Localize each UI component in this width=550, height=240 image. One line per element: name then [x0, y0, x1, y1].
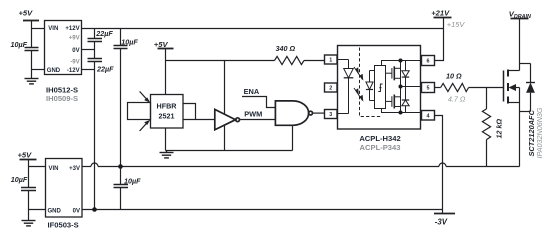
- NAND gate: [275, 101, 312, 125]
- wire HFBR output upper pin: [183, 104, 196, 120]
- photodiode: [366, 71, 375, 101]
- wire NAND output to pin 3: [313, 112, 325, 114]
- ground rail logic: [166, 150, 293, 152]
- junction dot OUT: [399, 85, 403, 89]
- resistor 340 ohm: [275, 56, 305, 64]
- svg-text:ACPL-P343: ACPL-P343: [360, 143, 401, 152]
- svg-text:ACPL-H342: ACPL-H342: [359, 134, 400, 143]
- wire pin 5 to gate resistor: [435, 87, 441, 89]
- wire GND of IH0512-S: [32, 69, 45, 71]
- svg-text:+5V: +5V: [154, 40, 169, 49]
- ground top-left: [25, 79, 39, 84]
- svg-text:HFBR: HFBR: [157, 101, 178, 110]
- wire 0V rail: [82, 209, 443, 211]
- ground symbol HFBR: [160, 151, 174, 158]
- fiber arrow lower: [140, 120, 151, 131]
- DC-DC converter IF0503-S: [46, 159, 83, 218]
- capacitor 22uF lower: [88, 50, 103, 70]
- gate driver ACPL-H342 body: [338, 46, 421, 130]
- wire +12V rail to +21V node: [82, 28, 444, 30]
- svg-text:+15V: +15V: [447, 20, 466, 29]
- svg-text:340 Ω: 340 Ω: [276, 44, 296, 53]
- pin 2: [325, 83, 338, 92]
- output fet upper: [386, 66, 401, 80]
- svg-text:10µF: 10µF: [11, 40, 28, 49]
- svg-text:+12V: +12V: [65, 26, 79, 32]
- svg-text:IF0503-S: IF0503-S: [48, 220, 79, 229]
- svg-text:IH0509-S: IH0509-S: [46, 94, 78, 103]
- svg-text:22µF: 22µF: [96, 64, 114, 73]
- supply +5V top-left: [23, 21, 39, 48]
- inverter buffer: [215, 109, 240, 129]
- wire NAND bottom to ground rail: [292, 125, 294, 150]
- wire output mid rail to pin 5: [401, 86, 421, 88]
- wire LED cathode to pin 3: [338, 113, 349, 115]
- svg-text:0V: 0V: [73, 209, 80, 215]
- wire +3V rail: [82, 163, 520, 167]
- svg-text:+21V: +21V: [431, 8, 450, 17]
- pin 4: [422, 111, 435, 121]
- junction dot VEE: [399, 111, 403, 115]
- wire +5V branch to 340 ohm: [166, 60, 275, 62]
- wire 340 ohm to pin 1: [304, 60, 325, 62]
- wire 0V pin: [82, 49, 95, 51]
- svg-text:GND: GND: [47, 68, 61, 74]
- capacitor 10uF bottom-left: [21, 188, 36, 221]
- pin 5: [422, 83, 435, 93]
- LED input diode: [344, 60, 354, 114]
- svg-text:10µF: 10µF: [121, 37, 138, 46]
- svg-text:22µF: 22µF: [95, 29, 113, 38]
- svg-text:VIN: VIN: [49, 166, 59, 172]
- DC-DC converter IH0512-S: [45, 21, 82, 75]
- svg-text:10µF: 10µF: [11, 175, 28, 184]
- svg-text:IPA032N06N3G: IPA032N06N3G: [535, 107, 544, 158]
- svg-text:GND: GND: [48, 209, 62, 215]
- supply +5V mid: [158, 49, 174, 95]
- wire VIN bottom: [29, 166, 46, 168]
- ground bottom-left: [22, 221, 36, 226]
- svg-text:VIN: VIN: [48, 26, 58, 32]
- svg-text:-12V: -12V: [67, 68, 80, 74]
- svg-text:1: 1: [329, 58, 332, 64]
- power mosfet Q1 SCT2120AFC: [504, 64, 531, 167]
- svg-text:12 kΩ: 12 kΩ: [495, 119, 504, 139]
- svg-text:-3V: -3V: [435, 218, 448, 227]
- body diode of Q1: [526, 64, 535, 112]
- svg-text:3: 3: [329, 112, 332, 118]
- svg-text:+5V: +5V: [19, 9, 34, 18]
- svg-text:+5V: +5V: [18, 150, 33, 159]
- driver amplifier block: [375, 66, 386, 109]
- capacitor 22uF upper: [88, 29, 103, 50]
- svg-text:+9V: +9V: [69, 35, 80, 41]
- supply +5V bottom-left: [20, 160, 37, 188]
- svg-text:0V: 0V: [72, 48, 79, 54]
- junction dot +3V rail / 10uF: [118, 164, 123, 169]
- pin 3: [325, 110, 338, 119]
- svg-text:2: 2: [329, 86, 332, 92]
- junction dot 0V rail: [92, 207, 97, 212]
- svg-text:4.7 Ω: 4.7 Ω: [448, 95, 466, 104]
- capacitor 10uF on +21V rail: [114, 29, 128, 167]
- resistor 10 ohm gate: [441, 83, 469, 91]
- body diode lower: [402, 87, 409, 113]
- capacitor 10uF input left: [25, 48, 39, 79]
- fiber arrow upper: [140, 91, 151, 102]
- wire GND bottom: [29, 209, 46, 211]
- wire HFBR bottom pin to ground rail: [165, 128, 167, 151]
- wire inverter GND drop: [224, 125, 226, 150]
- wire ENA to NAND: [242, 97, 275, 108]
- supply V_DRAIN: [511, 19, 529, 64]
- wire output totem vertical: [400, 61, 402, 113]
- capacitor 10uF mid rail: [114, 167, 129, 210]
- junction dot VCC: [399, 59, 403, 63]
- light ray arrow upper: [354, 67, 363, 81]
- wire inverter VCC drop: [224, 61, 226, 115]
- light ray arrow lower: [354, 88, 363, 102]
- svg-text:10µF: 10µF: [124, 176, 141, 185]
- wire HFBR output lower pin to inverter: [183, 119, 215, 121]
- pin 1: [325, 55, 338, 64]
- svg-text:5: 5: [427, 86, 430, 92]
- svg-text:2521: 2521: [159, 111, 175, 120]
- wire -12V bus down to -3V rail: [94, 70, 96, 210]
- resistor 12 kohm gate-source: [482, 88, 490, 167]
- fiber receiver HFBR 2521: [151, 95, 184, 129]
- svg-text:6: 6: [427, 59, 430, 65]
- supply +21V: [434, 17, 452, 19]
- svg-text:-9V: -9V: [70, 59, 79, 65]
- isolation dashed boundary: [360, 48, 383, 117]
- svg-text:10 Ω: 10 Ω: [446, 72, 462, 81]
- wire gate resistor to mosfet gate: [469, 87, 504, 89]
- wire VIN to IH0512-S: [32, 28, 45, 30]
- wire driver bottom to VEE rail: [382, 109, 421, 113]
- svg-text:4: 4: [427, 113, 430, 119]
- wire PWM inverter output to NAND: [240, 119, 276, 121]
- wire pin1 to LED anode: [338, 59, 349, 61]
- supply -3V: [434, 213, 455, 215]
- wire pin 4 down to -3V rail: [435, 116, 443, 214]
- svg-text:+3V: +3V: [69, 166, 80, 172]
- output fet lower: [386, 95, 401, 109]
- wire -12V pin: [82, 69, 95, 71]
- wire pin 6 to +21V: [435, 18, 444, 61]
- svg-text:PWM: PWM: [244, 109, 262, 118]
- wire driver top to VCC rail: [382, 61, 421, 66]
- svg-text:ENA: ENA: [244, 87, 260, 96]
- fiber connector bracket: [128, 103, 151, 120]
- pin 6: [422, 56, 435, 66]
- body diode upper: [402, 61, 409, 87]
